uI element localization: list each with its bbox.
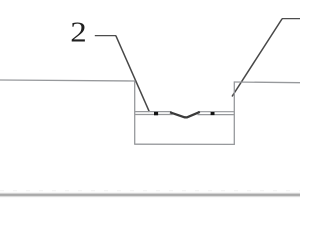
membrane band bottom line (right part) <box>198 114 235 116</box>
soft baseline at bottom <box>0 194 304 197</box>
membrane band top line (right part) <box>198 111 234 113</box>
trench bottom <box>134 143 235 145</box>
chevron dip in membrane <box>170 112 200 118</box>
membrane band bottom line (left part) <box>135 114 173 116</box>
leader line for label 2 (horizontal segment) <box>95 35 116 37</box>
trench left wall <box>134 80 136 144</box>
svg-text:2: 2 <box>70 17 86 48</box>
faint dashed line near bottom <box>0 190 300 192</box>
membrane band top line (left part) <box>135 111 172 113</box>
dot marker right <box>211 112 215 115</box>
leader line for label 2 (diagonal segment) <box>116 36 150 112</box>
right leader line (diagonal segment) <box>232 19 282 97</box>
right surface line <box>234 81 300 84</box>
trench right wall <box>233 81 235 144</box>
right leader line (horizontal segment, label off-canvas) <box>282 18 300 20</box>
label 2 <box>70 17 86 48</box>
left surface line <box>0 80 135 81</box>
dot marker left <box>154 112 158 115</box>
